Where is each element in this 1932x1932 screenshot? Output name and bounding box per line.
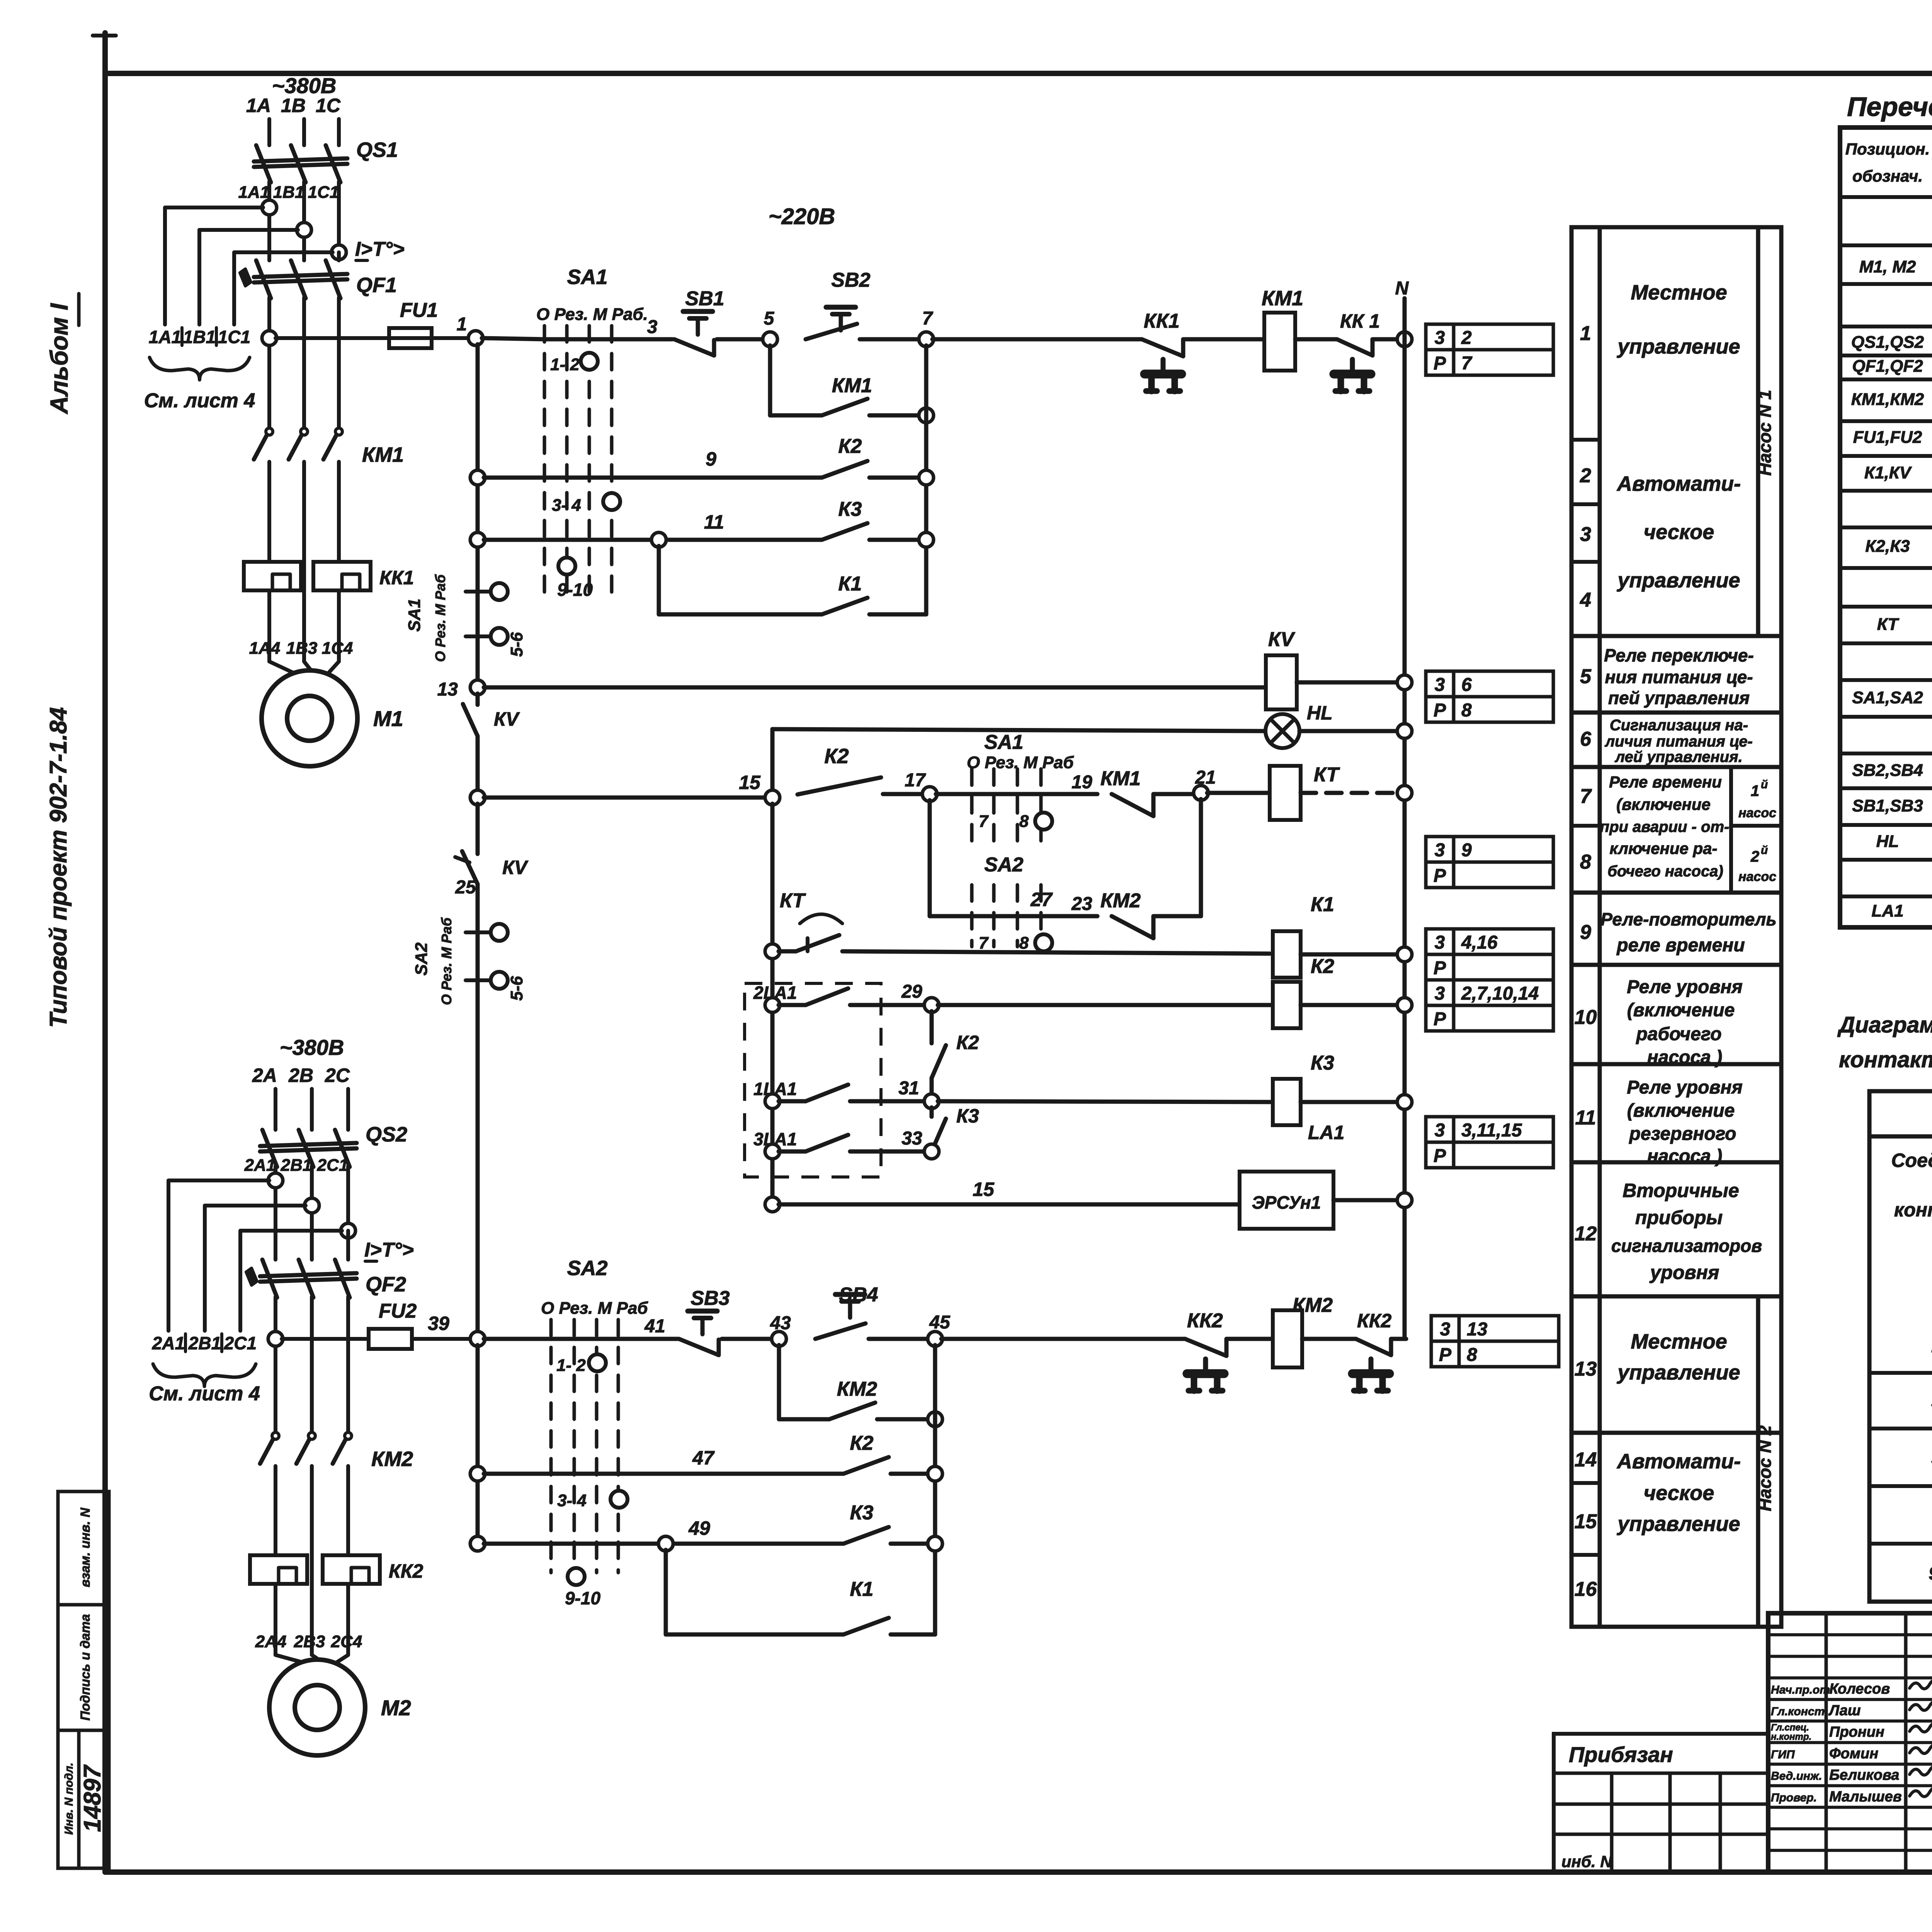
svg-text:SB1,SB3: SB1,SB3 — [1852, 796, 1923, 815]
svg-text:27: 27 — [1030, 889, 1053, 910]
svg-text:9: 9 — [1461, 840, 1472, 861]
svg-text:КК1: КК1 — [1144, 310, 1180, 332]
svg-text:уровня: уровня — [1649, 1262, 1719, 1283]
svg-text:LА1: LА1 — [1871, 901, 1903, 920]
svg-text:5-6: 5-6 — [507, 976, 526, 1001]
svg-text:2В1: 2В1 — [188, 1333, 221, 1353]
svg-text:КМ1,КМ2: КМ1,КМ2 — [1851, 390, 1924, 409]
svg-text:1В1: 1В1 — [183, 327, 216, 347]
svg-text:2С1: 2С1 — [317, 1156, 349, 1175]
svg-text:ГИП: ГИП — [1771, 1748, 1795, 1761]
svg-text:2А: 2А — [252, 1065, 277, 1086]
svg-text:Р: Р — [1434, 1146, 1446, 1166]
svg-text:7: 7 — [979, 934, 989, 952]
svg-text:I>T°>: I>T°> — [364, 1239, 414, 1261]
svg-text:9: 9 — [706, 448, 716, 470]
svg-text:1С: 1С — [316, 95, 341, 116]
svg-text:Реле переключе-: Реле переключе- — [1604, 645, 1754, 665]
svg-text:41: 41 — [644, 1316, 665, 1337]
svg-text:Р: Р — [1434, 866, 1446, 886]
svg-text:Вторичные: Вторичные — [1622, 1180, 1739, 1201]
svg-text:SA2: SA2 — [984, 854, 1023, 876]
svg-text:КМ2: КМ2 — [1100, 889, 1141, 912]
svg-text:Диаграмма замыкания: Диаграмма замыкания — [1837, 1012, 1932, 1037]
svg-text:К2,К3: К2,К3 — [1865, 537, 1910, 556]
svg-text:контактов: контактов — [1894, 1199, 1932, 1221]
svg-text:Местное: Местное — [1631, 1330, 1727, 1353]
svg-text:SB1: SB1 — [685, 287, 724, 310]
svg-text:Провер.: Провер. — [1771, 1791, 1817, 1804]
svg-text:М2: М2 — [381, 1696, 411, 1720]
svg-text:Реле уровня: Реле уровня — [1627, 977, 1743, 997]
svg-text:14897: 14897 — [79, 1764, 106, 1832]
svg-text:1: 1 — [1751, 782, 1759, 799]
svg-text:31: 31 — [898, 1078, 919, 1099]
svg-text:QS1: QS1 — [356, 138, 398, 162]
svg-text:1А1: 1А1 — [149, 327, 181, 347]
svg-text:4: 4 — [1580, 589, 1591, 611]
svg-text:15: 15 — [973, 1179, 995, 1200]
svg-text:QS2: QS2 — [366, 1123, 407, 1146]
svg-text:К1: К1 — [850, 1578, 874, 1600]
svg-text:О Рез. М Раб.: О Рез. М Раб. — [536, 305, 648, 324]
svg-text:1: 1 — [1580, 322, 1591, 345]
svg-text:1В: 1В — [281, 95, 306, 116]
svg-text:10: 10 — [1575, 1006, 1597, 1029]
svg-text:8: 8 — [1580, 851, 1591, 873]
svg-text:3: 3 — [647, 317, 658, 337]
svg-text:КV: КV — [1268, 628, 1296, 651]
svg-text:3LA1: 3LA1 — [753, 1129, 797, 1149]
svg-text:КТ: КТ — [780, 889, 806, 912]
svg-text:КМ2: КМ2 — [1293, 1294, 1333, 1316]
svg-text:~380В: ~380В — [272, 73, 337, 98]
svg-text:управление: управление — [1616, 1512, 1740, 1536]
svg-text:рабочего: рабочего — [1635, 1024, 1721, 1044]
svg-text:ЭРСУн1: ЭРСУн1 — [1252, 1192, 1321, 1213]
svg-text:насос: насос — [1738, 806, 1776, 820]
svg-text:обознач.: обознач. — [1852, 167, 1923, 185]
svg-text:КV: КV — [502, 857, 529, 878]
svg-text:Реле уровня: Реле уровня — [1627, 1077, 1743, 1098]
svg-text:3: 3 — [1435, 328, 1445, 348]
svg-text:SA1: SA1 — [405, 599, 424, 632]
svg-text:11: 11 — [1575, 1107, 1596, 1129]
svg-text:19: 19 — [1071, 772, 1092, 793]
svg-text:Соединение: Соединение — [1891, 1150, 1932, 1171]
svg-text:21: 21 — [1195, 767, 1216, 788]
svg-text:QS1,QS2: QS1,QS2 — [1851, 333, 1924, 352]
svg-text:КМ1: КМ1 — [1100, 767, 1141, 790]
svg-text:приборы: приборы — [1635, 1207, 1723, 1228]
svg-text:Гл.спец.: Гл.спец. — [1771, 1723, 1809, 1733]
svg-text:Реле-повторитель: Реле-повторитель — [1600, 909, 1776, 929]
svg-text:управление: управление — [1616, 335, 1740, 358]
svg-text:~380В: ~380В — [280, 1035, 344, 1060]
svg-text:Вед.инж.: Вед.инж. — [1771, 1770, 1822, 1782]
svg-text:Р: Р — [1439, 1345, 1452, 1365]
svg-text:7: 7 — [922, 308, 934, 329]
svg-text:3: 3 — [1435, 932, 1445, 953]
svg-text:QF1: QF1 — [356, 274, 397, 297]
svg-text:(включение: (включение — [1627, 1000, 1735, 1020]
svg-text:резервного: резервного — [1629, 1124, 1736, 1144]
svg-text:6: 6 — [1580, 728, 1592, 750]
svg-text:2: 2 — [1580, 464, 1591, 487]
svg-text:9: 9 — [1580, 921, 1591, 944]
svg-text:Малышев: Малышев — [1829, 1789, 1902, 1805]
svg-text:11: 11 — [704, 511, 724, 533]
svg-text:КК2: КК2 — [1187, 1310, 1223, 1332]
svg-text:1А1: 1А1 — [238, 183, 270, 202]
svg-text:управление: управление — [1616, 569, 1740, 592]
svg-text:КК2: КК2 — [389, 1560, 423, 1582]
svg-text:КМ2: КМ2 — [371, 1447, 413, 1471]
svg-text:К2: К2 — [956, 1032, 979, 1053]
svg-text:ключение ра-: ключение ра- — [1609, 839, 1717, 857]
svg-text:16: 16 — [1575, 1578, 1597, 1600]
svg-text:Альбом I: Альбом I — [45, 303, 73, 415]
svg-text:2В: 2В — [288, 1065, 313, 1086]
svg-text:~220В: ~220В — [769, 204, 835, 229]
svg-text:ческое: ческое — [1644, 520, 1714, 544]
svg-text:1- 2: 1- 2 — [550, 355, 580, 374]
svg-text:управление: управление — [1616, 1361, 1740, 1384]
svg-text:К1: К1 — [1311, 893, 1334, 916]
svg-text:НL: НL — [1876, 832, 1899, 851]
svg-text:25: 25 — [455, 877, 476, 898]
svg-text:1: 1 — [457, 314, 467, 335]
svg-text:SB2,SB4: SB2,SB4 — [1852, 761, 1923, 780]
svg-text:КV: КV — [494, 708, 520, 730]
svg-text:при аварии - от-: при аварии - от- — [1600, 818, 1730, 835]
svg-text:43: 43 — [770, 1313, 791, 1333]
svg-text:Р: Р — [1434, 958, 1446, 978]
svg-text:7: 7 — [979, 812, 989, 831]
svg-text:КМ1: КМ1 — [1262, 287, 1303, 310]
svg-text:1В1: 1В1 — [273, 183, 304, 202]
svg-text:(включение: (включение — [1616, 795, 1711, 813]
svg-text:8: 8 — [1467, 1345, 1477, 1365]
svg-text:FU1,FU2: FU1,FU2 — [1853, 428, 1922, 447]
svg-text:К3: К3 — [1311, 1052, 1334, 1074]
svg-text:М1, М2: М1, М2 — [1859, 257, 1916, 276]
svg-text:О Рез. М Раб: О Рез. М Раб — [439, 917, 454, 1005]
svg-text:2,7,10,14: 2,7,10,14 — [1461, 983, 1539, 1004]
svg-text:Нач.пр.от.: Нач.пр.от. — [1771, 1684, 1833, 1696]
svg-text:Беликова: Беликова — [1829, 1767, 1899, 1783]
svg-text:LА1: LА1 — [1308, 1122, 1344, 1143]
svg-text:13: 13 — [437, 679, 458, 700]
svg-text:2А1: 2А1 — [244, 1156, 276, 1175]
svg-text:Реле времени: Реле времени — [1609, 773, 1722, 791]
svg-text:Местное: Местное — [1631, 281, 1727, 304]
svg-text:13: 13 — [1575, 1358, 1597, 1380]
svg-text:3: 3 — [1435, 840, 1445, 861]
svg-text:КМ1: КМ1 — [362, 443, 404, 466]
svg-text:К1,КV: К1,КV — [1864, 463, 1912, 482]
svg-text:Прибязан: Прибязан — [1569, 1742, 1673, 1767]
svg-text:2А1: 2А1 — [152, 1333, 185, 1353]
svg-text:Фомин: Фомин — [1829, 1745, 1878, 1762]
svg-text:См. лист 4: См. лист 4 — [144, 389, 255, 412]
svg-text:ческое: ческое — [1644, 1481, 1714, 1505]
svg-text:5: 5 — [1580, 665, 1592, 688]
svg-text:47: 47 — [692, 1447, 715, 1469]
svg-text:2: 2 — [1750, 848, 1759, 865]
svg-text:Колесов: Колесов — [1829, 1681, 1890, 1697]
svg-text:2А4: 2А4 — [255, 1632, 287, 1651]
svg-text:3,11,15: 3,11,15 — [1461, 1120, 1522, 1141]
svg-text:1LA1: 1LA1 — [753, 1079, 797, 1099]
svg-text:Р: Р — [1434, 1009, 1446, 1029]
svg-text:3: 3 — [1435, 983, 1445, 1004]
svg-text:2С4: 2С4 — [331, 1632, 362, 1651]
svg-text:SA2: SA2 — [412, 942, 431, 976]
svg-text:К3: К3 — [838, 498, 862, 520]
svg-text:Типовой проект 902-7-1.84: Типовой проект 902-7-1.84 — [45, 707, 72, 1028]
svg-text:насос: насос — [1738, 869, 1776, 884]
svg-text:взам. инв. N: взам. инв. N — [78, 1507, 93, 1587]
svg-text:12: 12 — [1575, 1223, 1597, 1245]
svg-text:13: 13 — [1467, 1319, 1488, 1340]
svg-text:SA1: SA1 — [567, 265, 607, 289]
svg-text:личия питания це-: личия питания це- — [1604, 733, 1753, 750]
svg-text:н.контр.: н.контр. — [1771, 1732, 1811, 1742]
svg-text:сигнализаторов: сигнализаторов — [1611, 1236, 1762, 1256]
svg-text:6: 6 — [1461, 675, 1472, 695]
svg-text:инб. N: инб. N — [1561, 1852, 1612, 1871]
svg-text:3: 3 — [1435, 1120, 1445, 1141]
svg-text:Перечень элементов принц: Перечень элементов принципиальной схемы. — [1847, 92, 1932, 122]
svg-text:К3: К3 — [850, 1502, 874, 1524]
svg-text:8: 8 — [1461, 700, 1472, 721]
svg-text:1С4: 1С4 — [322, 639, 353, 658]
svg-text:1А4: 1А4 — [249, 639, 281, 658]
svg-text:(включение: (включение — [1627, 1100, 1735, 1121]
svg-text:2В1: 2В1 — [281, 1156, 312, 1175]
svg-text:ния питания це-: ния питания це- — [1605, 667, 1753, 687]
svg-text:бочего насоса): бочего насоса) — [1607, 863, 1723, 880]
svg-text:8: 8 — [1019, 934, 1029, 952]
svg-text:реле времени: реле времени — [1616, 935, 1745, 956]
svg-text:4,16: 4,16 — [1461, 932, 1498, 953]
svg-text:КТ: КТ — [1314, 764, 1340, 786]
svg-text:29: 29 — [901, 981, 922, 1002]
svg-text:Лаш: Лаш — [1828, 1702, 1861, 1719]
svg-text:Инв. N подл.: Инв. N подл. — [63, 1763, 75, 1835]
svg-text:3: 3 — [1435, 675, 1445, 695]
svg-text:й: й — [1761, 844, 1768, 857]
svg-text:3: 3 — [1440, 1319, 1451, 1340]
svg-text:К2: К2 — [824, 745, 849, 768]
svg-text:О Рез. М Раб: О Рез. М Раб — [967, 753, 1074, 772]
svg-text:14: 14 — [1575, 1449, 1597, 1471]
svg-text:SА2: SА2 — [567, 1257, 607, 1280]
svg-text:насоса ): насоса ) — [1647, 1047, 1722, 1068]
svg-text:О Рез. М Раб: О Рез. М Раб — [432, 574, 448, 662]
svg-text:2С: 2С — [325, 1065, 350, 1086]
svg-text:О Рез. М Раб: О Рез. М Раб — [541, 1299, 648, 1318]
svg-text:й: й — [1761, 778, 1768, 791]
svg-text:SB3: SB3 — [690, 1287, 730, 1310]
svg-text:К1: К1 — [838, 573, 862, 595]
svg-text:1С1: 1С1 — [218, 327, 250, 347]
svg-text:33: 33 — [901, 1128, 922, 1149]
svg-text:FU2: FU2 — [379, 1300, 417, 1322]
svg-text:I>T°>: I>T°> — [355, 238, 405, 260]
svg-text:7: 7 — [1461, 353, 1473, 374]
svg-text:К2: К2 — [838, 435, 862, 457]
svg-text:КК1: КК1 — [379, 567, 414, 588]
svg-text:1В3: 1В3 — [286, 639, 318, 658]
svg-text:К3: К3 — [956, 1105, 979, 1127]
svg-text:Пронин: Пронин — [1829, 1724, 1884, 1740]
svg-text:К2: К2 — [1311, 955, 1334, 978]
svg-text:2: 2 — [1461, 328, 1472, 348]
svg-text:9 -10: 9 -10 — [1929, 1563, 1932, 1584]
svg-text:7: 7 — [1580, 785, 1592, 808]
svg-text:К2: К2 — [850, 1432, 874, 1454]
svg-text:насоса ): насоса ) — [1647, 1146, 1722, 1167]
svg-text:5: 5 — [764, 308, 775, 329]
svg-text:3- 4: 3- 4 — [557, 1491, 587, 1510]
svg-text:QF1,QF2: QF1,QF2 — [1852, 357, 1923, 376]
svg-text:15: 15 — [1575, 1510, 1597, 1533]
svg-text:Р: Р — [1434, 700, 1446, 721]
svg-text:SB4: SB4 — [839, 1284, 878, 1306]
svg-text:FU1: FU1 — [400, 299, 438, 321]
svg-text:23: 23 — [1071, 894, 1092, 914]
svg-text:1- 2: 1- 2 — [556, 1356, 586, 1375]
svg-text:2В3: 2В3 — [294, 1632, 325, 1651]
svg-text:НL: НL — [1307, 702, 1333, 724]
svg-text:SА1,SА2: SА1,SА2 — [1852, 688, 1923, 707]
svg-text:контактов переключателя: контактов переключателя — [1839, 1047, 1932, 1072]
svg-text:9-10: 9-10 — [565, 1588, 600, 1608]
svg-text:39: 39 — [428, 1313, 449, 1334]
svg-text:Автомати-: Автомати- — [1616, 1450, 1741, 1473]
svg-text:SB2: SB2 — [831, 269, 870, 291]
svg-text:45: 45 — [929, 1312, 951, 1333]
svg-text:Насос N 2: Насос N 2 — [1755, 1425, 1775, 1511]
svg-text:9-10: 9-10 — [557, 580, 593, 600]
svg-text:М1: М1 — [373, 706, 403, 731]
svg-text:N: N — [1395, 278, 1409, 299]
svg-text:Позицион.: Позицион. — [1845, 140, 1930, 158]
svg-text:Подпись и дата: Подпись и дата — [78, 1614, 93, 1721]
svg-text:КК2: КК2 — [1357, 1310, 1391, 1332]
svg-text:15: 15 — [739, 772, 761, 793]
svg-text:Гл.конст.: Гл.конст. — [1771, 1705, 1828, 1718]
svg-text:1А: 1А — [246, 95, 271, 116]
svg-text:См. лист 4: См. лист 4 — [149, 1383, 260, 1405]
svg-text:1С1: 1С1 — [308, 183, 339, 202]
svg-text:Сигнализация на-: Сигнализация на- — [1610, 717, 1748, 734]
svg-text:2LA1: 2LA1 — [753, 983, 797, 1003]
svg-text:Автомати-: Автомати- — [1616, 472, 1741, 495]
svg-text:лей управления.: лей управления. — [1614, 748, 1743, 765]
svg-text:Р: Р — [1434, 353, 1446, 374]
svg-text:2С1: 2С1 — [224, 1333, 257, 1353]
svg-text:КМ2: КМ2 — [837, 1378, 877, 1400]
svg-text:3: 3 — [1580, 523, 1591, 546]
svg-text:пей управления: пей управления — [1608, 688, 1750, 708]
svg-text:QF2: QF2 — [366, 1273, 406, 1296]
svg-text:17: 17 — [905, 770, 926, 791]
svg-text:8: 8 — [1019, 812, 1029, 831]
svg-text:SA1: SA1 — [984, 731, 1023, 753]
svg-text:5-6: 5-6 — [507, 632, 526, 657]
svg-text:Насос N 1: Насос N 1 — [1755, 390, 1775, 476]
svg-text:КТ: КТ — [1877, 615, 1900, 634]
svg-text:КМ1: КМ1 — [832, 374, 872, 397]
svg-text:49: 49 — [688, 1517, 710, 1539]
svg-text:КК 1: КК 1 — [1340, 310, 1380, 332]
svg-text:3- 4: 3- 4 — [552, 496, 581, 515]
